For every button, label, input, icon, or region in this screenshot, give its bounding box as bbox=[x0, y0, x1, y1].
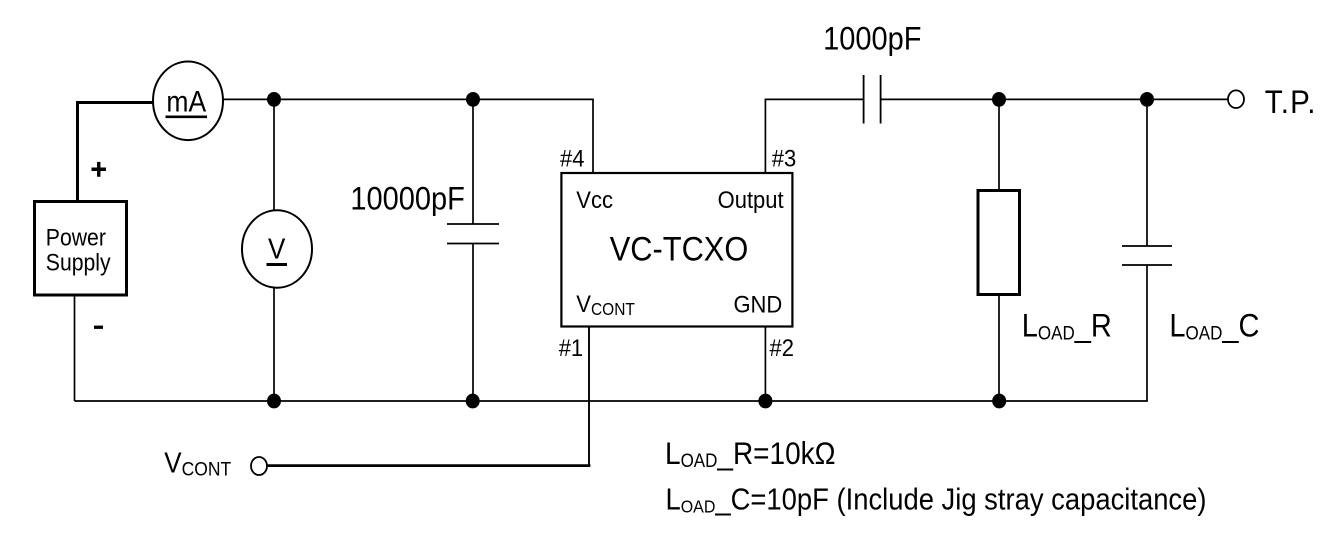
capacitor C3 Load_C bbox=[1122, 246, 1172, 265]
power supply PS1 bbox=[35, 202, 127, 296]
wire voltmeter bottom to ground rail bbox=[273, 288, 275, 401]
wire capacitor C1 bottom to ground rail bbox=[472, 244, 474, 402]
svg-text:Power: Power bbox=[46, 224, 107, 250]
svg-text:Supply: Supply bbox=[46, 249, 112, 275]
ground rail junction at pin2 GND bbox=[758, 394, 772, 409]
- polarity label bbox=[94, 326, 103, 329]
node A junction bbox=[267, 92, 281, 107]
capacitor C2 1000pF bbox=[864, 75, 881, 124]
ammeter mA bbox=[153, 62, 223, 141]
wire capacitor C2 right to node C bbox=[881, 98, 999, 100]
wire power supply + to mA meter bbox=[78, 100, 155, 201]
svg-text:Vcc: Vcc bbox=[576, 186, 613, 213]
svg-text:#1: #1 bbox=[559, 334, 583, 361]
voltmeter V bbox=[242, 210, 312, 287]
Vcont input wire bbox=[267, 464, 590, 467]
wire node B to capacitor C1 top bbox=[472, 99, 474, 224]
svg-text:Output: Output bbox=[718, 186, 784, 213]
wire node D to capacitor C3 top bbox=[1146, 99, 1148, 246]
ground rail junction at capacitor C1 bbox=[466, 394, 480, 409]
svg-text:VC-TCXO: VC-TCXO bbox=[610, 229, 749, 268]
node D junction bbox=[1140, 92, 1154, 107]
wire node A to voltmeter top bbox=[273, 99, 275, 211]
wire resistor R1 bottom to ground rail bbox=[998, 296, 1000, 401]
wire capacitor C3 bottom to ground rail end bbox=[1146, 265, 1148, 401]
svg-text:#4: #4 bbox=[560, 144, 585, 171]
svg-text:T.P.: T.P. bbox=[1265, 83, 1317, 120]
svg-text:GND: GND bbox=[733, 290, 782, 317]
+ polarity label bbox=[92, 162, 107, 177]
resistor R1 Load_R bbox=[978, 191, 1020, 295]
VC-TCXO U1 bbox=[561, 173, 792, 327]
wire pin2 GND to ground rail bbox=[764, 327, 766, 402]
node C junction bbox=[992, 92, 1006, 107]
wire node C to node D bbox=[999, 98, 1147, 100]
wire pin3 to capacitor C2 left bbox=[765, 99, 863, 173]
svg-text:LOAD_C=10pF (Include Jig stray: LOAD_C=10pF (Include Jig stray capacitan… bbox=[666, 483, 1207, 517]
wire mA to node A bbox=[223, 98, 274, 100]
ground rail junction at voltmeter bbox=[267, 394, 281, 409]
svg-text:mA: mA bbox=[166, 85, 206, 118]
wire node C to resistor R1 top bbox=[998, 99, 1000, 189]
wire pin1 Vcont down across rail bbox=[588, 327, 590, 466]
ground rail junction at resistor R1 bbox=[992, 394, 1006, 409]
svg-text:V: V bbox=[268, 232, 286, 265]
capacitor C1 10000pF bbox=[447, 224, 499, 244]
node B junction bbox=[466, 92, 480, 107]
test point terminal T.P. bbox=[1228, 90, 1244, 108]
ground rail wire bbox=[75, 400, 1148, 402]
wire node D to test point bbox=[1147, 98, 1228, 100]
svg-text:10000pF: 10000pF bbox=[350, 180, 464, 217]
svg-text:#2: #2 bbox=[770, 334, 794, 361]
Vcont input terminal bbox=[251, 457, 267, 475]
wire power supply - to ground rail bbox=[74, 297, 76, 402]
svg-text:1000pF: 1000pF bbox=[823, 20, 921, 57]
wire node A to node B to pin4 corner bbox=[274, 99, 593, 173]
svg-text:#3: #3 bbox=[772, 144, 796, 171]
